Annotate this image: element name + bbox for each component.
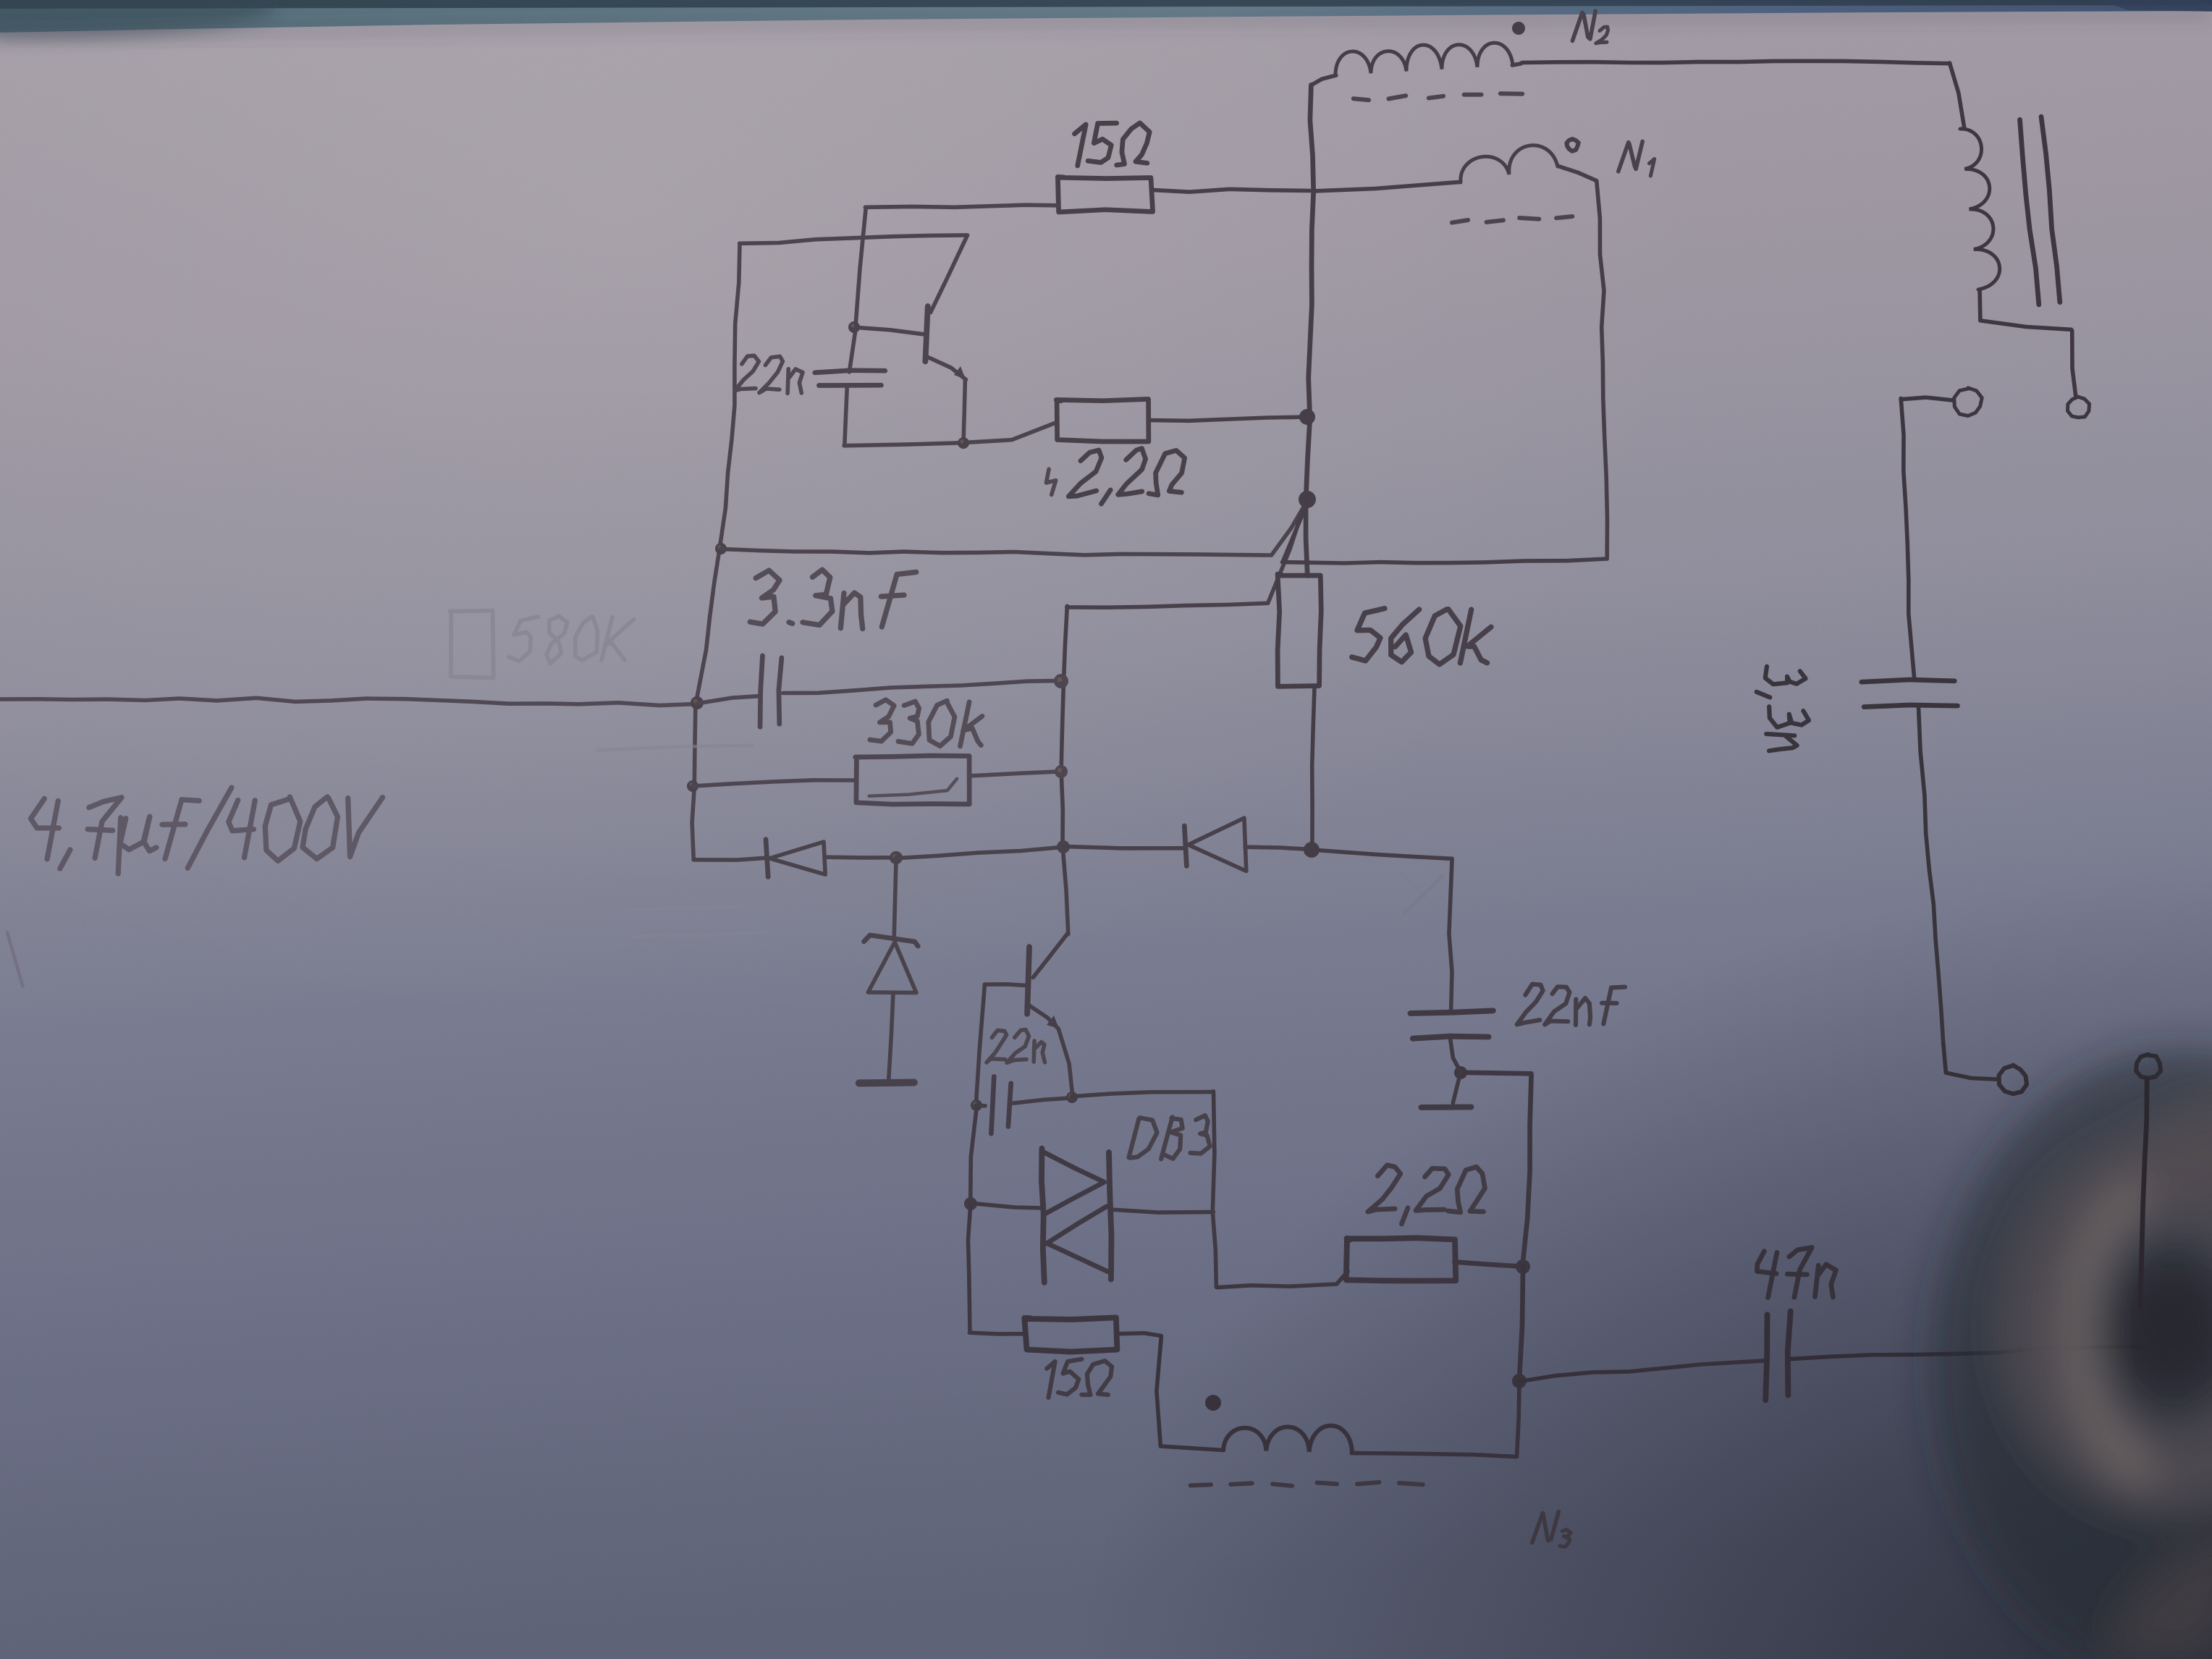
transistor Q2 (bottom NPN) [984,934,1073,1096]
wire 22nF feed [1312,850,1452,1011]
wire rail to N1 [1312,182,1460,191]
wire 15Ω to N3 [1157,1336,1224,1451]
wire 47n left [1519,1361,1765,1382]
label 3,3n (rotated) [1755,664,1810,751]
resistor 2,2Ω (top) [1056,399,1307,442]
wire N2 to lamp [1522,61,1950,63]
capacitor 22n (Q1 base-emitter) [815,328,885,446]
polarity dot N3 [1205,1395,1221,1411]
wire top box horizontal [740,235,968,243]
resistor 580K (faint erased) [449,611,634,678]
wire center rail top U [1067,502,1306,607]
label 22n (top) [735,355,803,393]
wire DB3 right side [1212,1092,1216,1288]
capacitor 3,3n (lamp series) [1862,680,1958,1044]
node Q1 emitter junction [958,437,969,449]
eraser ghost diode near 22nF [1403,874,1443,913]
polarity dot N1 [1566,139,1578,151]
node mains junction [691,696,704,709]
node N3/47n junction [1512,1374,1527,1388]
node Q1 base junction [848,321,860,333]
wire center to D2 [1064,846,1185,848]
inductor N2 [1312,43,1521,85]
node 22n left junction [971,1099,982,1111]
wire center rail vertical [1061,606,1068,934]
node Q2 emitter junction [1066,1092,1078,1103]
capacitor label 4,7µF/400V [31,788,383,874]
wire N1 bottom [1282,502,1607,563]
node 22nF bottom junction [1454,1066,1467,1079]
wire N3 right lead up [1517,1382,1519,1456]
wire filament to pin [1980,291,2076,395]
node left-rail / y758 wire [715,543,727,554]
wire D2 to right junction [1245,847,1312,849]
lamp filament coil [1960,129,2000,290]
node rail 2,2Ω junction [1299,409,1315,425]
resistor 560k [1278,574,1321,850]
lamp pin left (top pair) [1954,388,1983,416]
wire lower pin drop [2140,1080,2148,1307]
lamp pin right (top pair) [2068,397,2090,418]
resistor 330k [693,756,1061,804]
lamp pin right (bottom pair) [2136,1055,2161,1078]
wire DB3 to 2,2Ω [1217,1271,1348,1287]
wire lamp drop [1950,63,1964,127]
label 15Ω (top) [1075,123,1150,166]
node 3.3nF right junction [1054,674,1068,688]
zener diode Z1 [864,935,919,1080]
label 22n (Q2) [987,1029,1045,1063]
capacitor 47n [1765,1312,1791,1401]
diode D2 [1184,818,1246,871]
resistor 15Ω (bottom) [969,1317,1160,1351]
wire mains input (long horizontal) [0,698,698,705]
inductor N3 [1223,1426,1517,1457]
node 2,2Ω junction [1516,1259,1530,1274]
wire left drop to 15Ω [968,1204,971,1333]
wire diode row left [693,858,767,860]
label 15Ω (bottom) [1047,1359,1112,1398]
wire left drop to DB3 row [971,1105,977,1204]
wire lamp left pin [1901,397,1954,400]
core dashes N3 [1191,1482,1423,1486]
node 330k left [687,780,698,792]
stray mark left edge [7,932,23,987]
wire 47n right [1791,1346,2141,1359]
polarity dot N2 [1512,22,1525,35]
wire zener drop [894,858,896,937]
wire left rail (top box left side down to diode row) [692,243,740,859]
core dashes N2 [1354,93,1522,100]
wire 2,2Ω junction down [1519,1267,1523,1382]
transistor Q1 (top NPN) [856,235,968,443]
label 330k [870,700,982,746]
wire Q2 base drop [976,985,984,1105]
open stub below 22nF [1421,1073,1471,1107]
node center diode junction [1057,840,1070,853]
wire mid horizontal (left rail to right rail) [721,500,1308,555]
capacitor 22n (Q2 base) [976,1076,1072,1134]
wire Q1 base to 15Ω [856,208,866,328]
label 22nF [1517,984,1625,1025]
wire to lower pin [1943,1044,1998,1079]
lamp core lines [2020,117,2060,305]
out-of-focus cable bottom right [1933,1050,2212,1659]
wire D1 to center [827,855,897,859]
label 3.3nF [750,570,916,629]
wire right rail [1306,85,1314,575]
label 560k [1352,609,1491,664]
capacitor 3.3nF [697,656,1061,727]
node DB3 left junction [964,1197,977,1210]
wire zener junction to center rail [896,847,1063,858]
label DB3 [1129,1115,1210,1159]
diode D1 [766,840,825,877]
label N3 [1532,1511,1571,1546]
resistor 2,2Ω (bottom) [1346,1238,1523,1280]
node 330k right junction [1055,765,1068,778]
node rail mid junction [1299,491,1316,508]
wire Q1 loop bottom [844,423,1056,446]
label N2 [1572,11,1608,43]
capacitor 22nF [1411,1010,1493,1073]
wire DB3 top [1072,1092,1213,1097]
node zener junction [890,851,903,864]
wire N1 right side [1597,181,1608,559]
node main right junction [1304,842,1320,858]
label 2,2Ω (bottom) [1368,1165,1485,1224]
diac DB3 [1042,1149,1214,1283]
wire lamp left drop [1901,398,1915,680]
core dashes N1 [1452,216,1572,223]
wire 22nF loop right side [1461,1073,1531,1267]
ground [859,1078,914,1086]
eraser ghost near 330k [598,746,769,937]
lamp pin left (bottom pair) [1999,1065,2027,1094]
label N1 [1618,141,1655,176]
fabric strip at top edge [0,0,2212,38]
wire DB3 bottom row [971,1203,1042,1208]
label 47n [1757,1248,1836,1298]
inductor N1 [1461,145,1596,182]
resistor 15Ω (top) [865,177,1309,212]
label 2,2Ω (top) [1046,449,1184,505]
